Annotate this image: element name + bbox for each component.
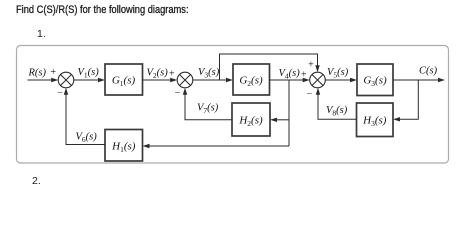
block H2 xyxy=(232,103,270,136)
svg-text:G2(s): G2(s) xyxy=(239,74,263,88)
summing junction S1 xyxy=(58,72,74,88)
wire branch to H2 xyxy=(270,118,289,122)
svg-text:−: − xyxy=(57,88,63,99)
svg-text:R(s): R(s) xyxy=(28,68,47,79)
item number 2 (cut off) xyxy=(32,175,41,187)
figure frame xyxy=(17,46,449,164)
svg-text:G1(s): G1(s) xyxy=(112,74,136,88)
wire H2 to S2 bottom xyxy=(183,88,232,120)
svg-text:V3(s): V3(s) xyxy=(198,67,220,80)
svg-text:+: + xyxy=(301,70,307,81)
svg-text:V7(s): V7(s) xyxy=(197,103,219,116)
svg-text:C(s): C(s) xyxy=(419,66,438,77)
svg-text:V4(s): V4(s) xyxy=(279,68,301,81)
block G1 xyxy=(105,64,143,95)
question text xyxy=(16,4,189,16)
wire G1 to S2 xyxy=(143,78,178,82)
wire H3 to S3 bottom xyxy=(316,88,357,120)
svg-text:H1(s): H1(s) xyxy=(111,141,136,155)
wire R(s) input xyxy=(28,78,59,82)
block H3 xyxy=(357,103,394,137)
svg-text:+: + xyxy=(50,67,56,78)
block G3 xyxy=(357,64,393,96)
wire S1 to G1 xyxy=(74,78,106,82)
wire output tap to H3 xyxy=(393,80,418,122)
wire tap into H1 xyxy=(143,144,290,148)
wire S2 to G2 with tap node xyxy=(193,78,234,82)
svg-text:V6(s): V6(s) xyxy=(76,132,98,145)
summing junction S2 xyxy=(177,72,193,88)
svg-text:V5(s): V5(s) xyxy=(327,67,349,80)
wire feedforward V3 to S3 top xyxy=(220,54,320,80)
block G2 xyxy=(233,64,270,95)
svg-text:V8(s): V8(s) xyxy=(326,105,348,118)
wire S3 to G3 xyxy=(325,78,357,82)
wire H1 to S1 bottom xyxy=(64,88,105,145)
svg-text:H2(s): H2(s) xyxy=(238,115,263,129)
wire G2 to S3 xyxy=(270,78,310,82)
svg-text:V1(s): V1(s) xyxy=(78,67,100,80)
svg-text:V2(s): V2(s) xyxy=(147,68,169,81)
block H1 xyxy=(105,130,143,162)
wire V4 tap down to H2 and H1 xyxy=(288,80,290,146)
svg-text:H3(s): H3(s) xyxy=(362,115,387,129)
wire G3 to C(s) output xyxy=(393,78,445,82)
svg-text:−: − xyxy=(307,89,313,100)
summing junction S3 xyxy=(310,72,326,88)
svg-text:+: + xyxy=(308,60,314,71)
svg-text:G3(s): G3(s) xyxy=(363,74,387,88)
svg-text:+: + xyxy=(169,69,175,80)
item number 1 xyxy=(37,28,46,40)
svg-text:−: − xyxy=(175,88,181,99)
